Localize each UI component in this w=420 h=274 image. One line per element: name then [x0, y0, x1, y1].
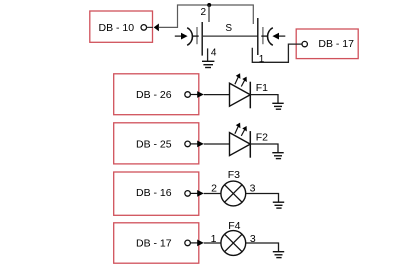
stub arc to plate left	[193, 35, 199, 37]
wire DB-10 terminal to top net	[159, 5, 254, 27]
wire DB-10 circle to arrow	[147, 26, 153, 28]
lamp F3	[221, 181, 246, 206]
svg-text:2: 2	[211, 183, 217, 195]
svg-text:1: 1	[211, 233, 217, 245]
svg-text:S: S	[225, 23, 232, 34]
right socket arc of connector S	[268, 28, 273, 46]
terminal circle DB-16	[185, 191, 191, 197]
ground of LED F2	[272, 153, 283, 159]
connector block DB-16	[114, 172, 199, 215]
svg-text:1: 1	[259, 54, 265, 65]
svg-text:2: 2	[201, 7, 207, 18]
svg-text:DB - 26: DB - 26	[136, 89, 172, 101]
connector block DB-10	[90, 11, 153, 42]
wire and arrow out of DB-16	[190, 190, 203, 197]
left socket arc of connector S	[187, 28, 192, 46]
stub arc to plate right	[261, 35, 267, 37]
wire LED F1 to ground	[250, 95, 278, 103]
axis line of relay S	[203, 35, 259, 37]
arrow into DB-10	[154, 24, 159, 32]
svg-text:DB - 10: DB - 10	[98, 22, 134, 34]
terminal circle DB-17 top	[302, 41, 307, 46]
connector block DB-17 top	[296, 29, 358, 59]
svg-text:4: 4	[211, 48, 217, 59]
ground of S pin 4	[202, 61, 214, 67]
ground of lamp F4	[273, 252, 284, 258]
lamp F4	[221, 231, 246, 256]
LED F1	[230, 73, 251, 108]
svg-text:DB - 16: DB - 16	[136, 187, 172, 199]
wire lamp F4 pin 3 to ground	[246, 243, 279, 251]
wire DB-16 to lamp F3 pin 2	[204, 193, 221, 195]
wire DB-17 to lamp F4 pin 1	[204, 242, 221, 244]
left gray plate of connector S	[196, 27, 198, 44]
terminal circle DB-10	[141, 25, 147, 31]
junction dot on top net	[207, 3, 211, 7]
terminal circle DB-26	[185, 92, 191, 98]
wire DB-26 to LED F1	[204, 94, 229, 96]
wire lamp F3 pin 3 to ground	[246, 194, 279, 202]
connector block DB-17 bottom	[114, 223, 199, 263]
left plate of connector S	[201, 22, 203, 56]
svg-text:F2: F2	[256, 131, 268, 143]
ground of lamp F3	[273, 202, 284, 208]
wire DB-25 to LED F2	[204, 143, 229, 145]
svg-text:F3: F3	[228, 169, 240, 181]
wire S pin 4 to ground	[207, 48, 209, 61]
wire LED F2 to ground	[250, 144, 278, 152]
wire and arrow out of DB-17 bottom	[190, 240, 203, 247]
ground of LED F1	[272, 103, 283, 109]
connector block DB-25	[114, 123, 199, 164]
right plate of connector S	[257, 18, 259, 55]
terminal circle DB-17 bottom	[185, 240, 191, 246]
connector block DB-26	[114, 74, 199, 115]
right plug arrow of connector S	[272, 33, 285, 40]
svg-text:F1: F1	[256, 82, 268, 94]
svg-text:DB - 17: DB - 17	[318, 38, 354, 50]
svg-text:DB - 17: DB - 17	[136, 238, 172, 250]
wire and arrow out of DB-25	[190, 141, 203, 148]
right gray plate of connector S	[262, 27, 264, 44]
left plug arrow of connector S	[175, 33, 188, 40]
wire S pin 1 to DB-17	[252, 44, 302, 62]
wire and arrow out of DB-26	[190, 91, 203, 98]
wire pin 2 stub of S	[208, 5, 210, 22]
svg-text:F4: F4	[228, 220, 240, 232]
terminal circle DB-25	[185, 141, 191, 147]
svg-text:DB - 25: DB - 25	[136, 139, 172, 151]
LED F2	[230, 123, 251, 158]
